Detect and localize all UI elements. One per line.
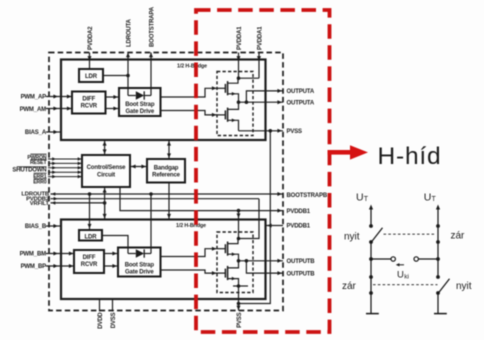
node PVSS rail B <box>233 284 248 288</box>
wire gate drive B low <box>161 270 218 275</box>
svg-text:OUTPUTB: OUTPUTB <box>287 271 316 277</box>
label 1/2 H-Bridge (top) <box>177 64 207 70</box>
H-bridge A dashed box <box>217 72 253 136</box>
svg-text:1/2 H-Bridge: 1/2 H-Bridge <box>177 64 207 70</box>
node output A <box>237 100 249 104</box>
diode D2 (bootstrap B) <box>128 249 151 257</box>
transistor Q3 (B high) <box>217 239 239 261</box>
node output B <box>237 259 249 263</box>
terminal bar right <box>434 313 447 315</box>
left rail middle <box>369 242 373 261</box>
svg-text:ki: ki <box>404 274 409 281</box>
svg-text:U: U <box>356 192 364 204</box>
pin DVSS <box>111 299 117 328</box>
wire gate drive B high <box>161 247 218 257</box>
pin RESET (control input) <box>30 160 82 167</box>
pin PVDDA1 (2) <box>239 26 264 78</box>
wire diff A out 2 <box>106 107 120 111</box>
svg-text:RCVR: RCVR <box>81 262 98 268</box>
pin SHUTDOWN (control input) <box>12 166 82 174</box>
wire LDROUTB to LDR B <box>88 194 92 230</box>
svg-text:ERR0: ERR0 <box>33 180 47 186</box>
transistor Q2 (A low) <box>217 102 239 131</box>
svg-text:PVDDA2: PVDDA2 <box>88 26 94 50</box>
svg-text:BOOTSTRAPA: BOOTSTRAPA <box>150 6 156 47</box>
arrow Uki <box>396 263 404 266</box>
LDR regulator A <box>79 69 103 82</box>
switch S2 closed (right top) <box>436 224 440 259</box>
svg-text:VRFILT: VRFILT <box>30 201 50 207</box>
top half block box <box>61 60 266 141</box>
left rail supply arrow <box>369 205 373 227</box>
label nyit (left top) <box>344 232 360 243</box>
svg-text:Circuit: Circuit <box>97 172 115 178</box>
svg-text:Reference: Reference <box>152 173 180 179</box>
pin OUTPUTA (1) <box>246 89 314 102</box>
dashed link top <box>384 233 437 235</box>
svg-text:DIFF: DIFF <box>83 255 96 261</box>
wire control to bottom block <box>103 187 107 220</box>
label UT left <box>356 192 369 204</box>
svg-text:H-híd: H-híd <box>378 143 442 170</box>
svg-text:Bandgap: Bandgap <box>154 165 179 171</box>
chip outer dashed boundary <box>49 53 283 311</box>
svg-text:OUTPUTB: OUTPUTB <box>287 259 316 265</box>
svg-text:PVSS: PVSS <box>287 129 303 135</box>
wire diff A out 1 <box>106 95 120 99</box>
svg-text:DIFF: DIFF <box>82 96 95 102</box>
svg-text:Gate Drive: Gate Drive <box>126 109 155 115</box>
pin BOOTSTRAPA <box>149 6 156 95</box>
dashed link bottom <box>373 284 438 286</box>
wire PVDDB1 to bridge B <box>237 211 241 239</box>
pin BIAS_A <box>25 130 62 136</box>
svg-text:BIAS_A: BIAS_A <box>25 130 47 136</box>
label H-hid <box>378 143 442 170</box>
svg-text:PVDDB1: PVDDB1 <box>287 209 311 215</box>
label UT right <box>424 192 437 204</box>
wire gate drive A high <box>161 86 218 97</box>
label nyit (right bottom) <box>456 281 472 292</box>
svg-text:LDR: LDR <box>85 235 98 241</box>
pin OUTPUTA (2) <box>239 100 315 106</box>
node PVDDB rail B <box>237 237 241 241</box>
svg-text:Gate Drive: Gate Drive <box>125 269 154 275</box>
wire bandgap to top block <box>167 140 171 159</box>
pin PVSS (right) <box>239 129 303 135</box>
svg-text:T: T <box>432 196 437 203</box>
svg-text:PWM_AM: PWM_AM <box>20 107 47 113</box>
diode D1 (bootstrap A) <box>128 91 151 99</box>
label zar (right top) <box>451 231 466 242</box>
wire bandgap to bottom block <box>167 183 171 220</box>
pin PWRON (control input) <box>27 154 82 161</box>
bandgap reference box <box>147 159 185 183</box>
wire control to top block <box>103 140 107 155</box>
pin LDROUTA <box>126 18 133 95</box>
svg-text:PVDDB1: PVDDB1 <box>287 224 311 230</box>
label Uki <box>397 270 409 281</box>
pin ERR0 (control input) <box>33 175 82 186</box>
svg-text:BIAS_B: BIAS_B <box>25 224 47 230</box>
wire diff B out 1 <box>104 252 118 256</box>
pin PWM_AP <box>21 94 72 100</box>
diff receiver A <box>72 92 106 114</box>
wire gate drive A low <box>161 111 218 117</box>
svg-text:LDR: LDR <box>85 74 98 80</box>
svg-text:PWM_BM: PWM_BM <box>20 251 47 257</box>
svg-text:1/2 H-Bridge: 1/2 H-Bridge <box>176 223 206 229</box>
switch S3 closed (left bottom) <box>369 259 373 314</box>
svg-text:DVSS: DVSS <box>111 312 117 328</box>
node PVDDA rail A <box>237 76 241 80</box>
svg-text:LDROUTA: LDROUTA <box>127 18 133 47</box>
svg-text:SHUTDOWN: SHUTDOWN <box>12 168 46 174</box>
pin LDROUTB / BOOTSTRAPB bus <box>21 192 327 199</box>
svg-text:DVDD: DVDD <box>98 312 104 329</box>
pin PWM_BP <box>21 264 74 270</box>
svg-text:U: U <box>397 270 404 281</box>
pin OUTPUTB (2) <box>246 261 315 278</box>
transistor Q4 (B low) <box>217 261 239 286</box>
svg-text:Boot Strap: Boot Strap <box>125 262 155 268</box>
pin ERR1 (control input) <box>33 170 82 180</box>
pin VRFILT <box>30 201 107 220</box>
wire BOOTSTRAPB down <box>150 194 152 254</box>
pin PVDDB1 (1) <box>120 187 311 215</box>
pin PWM_AM <box>20 107 72 114</box>
pin PVDDB1 (2) <box>266 224 311 230</box>
svg-text:PWM_BP: PWM_BP <box>21 264 47 270</box>
label 1/2 H-Bridge (bottom) <box>176 223 206 229</box>
svg-text:nyit: nyit <box>344 232 360 243</box>
bootstrap gate drive A <box>119 88 161 116</box>
pin OUTPUTB (1) <box>239 259 316 265</box>
LDR regulator B <box>79 230 102 241</box>
switch S4 open (right bottom) <box>436 259 449 295</box>
switch S1 open (left top) <box>369 224 382 244</box>
svg-text:RESET: RESET <box>30 160 48 166</box>
svg-text:PWM_AP: PWM_AP <box>21 94 47 100</box>
H-bridge B dashed box <box>217 232 253 293</box>
wire PVSS down link <box>239 131 271 304</box>
output terminal left <box>371 257 395 261</box>
svg-text:PVDDA1: PVDDA1 <box>258 26 264 50</box>
label zar (left bottom) <box>342 281 357 292</box>
svg-text:PVDDA1: PVDDA1 <box>237 26 243 50</box>
svg-text:U: U <box>424 192 432 204</box>
svg-text:nyit: nyit <box>456 281 472 292</box>
transistor Q1 (A high) <box>217 78 239 102</box>
pin PVSS (bottom) <box>237 286 244 328</box>
svg-text:T: T <box>364 196 369 203</box>
red arrow <box>328 145 369 159</box>
output terminal right <box>414 257 440 261</box>
svg-text:OUTPUTA: OUTPUTA <box>287 89 315 95</box>
svg-text:zár: zár <box>342 281 357 292</box>
pin DVDD <box>98 299 104 329</box>
terminal bar left <box>366 313 379 315</box>
red dashed highlight box <box>196 10 330 332</box>
bottom half block box <box>61 220 266 300</box>
bootstrap gate drive B <box>118 248 161 277</box>
svg-text:OUTPUTA: OUTPUTA <box>287 100 315 106</box>
svg-text:BOOTSTRAPB: BOOTSTRAPB <box>287 193 328 199</box>
svg-text:Control/Sense: Control/Sense <box>87 165 127 171</box>
wire diff B out 2 <box>104 264 118 268</box>
pin PVDDA2 <box>88 26 95 69</box>
wire LDR B output <box>102 236 128 254</box>
pin PWM_BM <box>20 251 74 257</box>
pin PVDDA1 (1) <box>237 26 244 78</box>
control/sense circuit box <box>82 155 130 187</box>
svg-text:PVSS: PVSS <box>237 312 243 328</box>
right rail bottom <box>437 293 439 314</box>
svg-text:Boot Strap: Boot Strap <box>125 102 155 108</box>
pin PVDDB2 bus <box>26 196 259 238</box>
wire LDR A output <box>103 75 128 77</box>
right rail supply arrow <box>436 205 440 227</box>
pin BIAS_B <box>25 224 62 230</box>
wire control-bandgap <box>130 165 147 169</box>
diff receiver B <box>74 250 104 273</box>
svg-text:zár: zár <box>451 231 466 242</box>
svg-text:RCVR: RCVR <box>81 104 98 110</box>
